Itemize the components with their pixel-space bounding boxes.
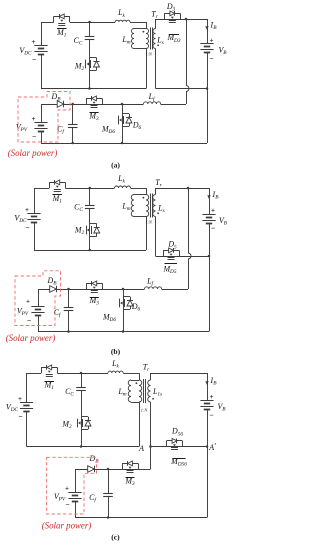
node MD6 top (b) — [122, 288, 125, 291]
mosfet MD6 with diode D6 (b) — [120, 297, 134, 310]
Tr-a secondary bottom wire — [155, 49, 157, 89]
inductor Lk (b) — [115, 186, 131, 188]
transformer Tr-c primary winding — [139, 380, 142, 402]
Tr-c primary polarity dot — [136, 382, 138, 384]
capacitor Cf (c) — [103, 494, 113, 497]
label MD6 — [101, 125, 115, 136]
wire battery VB down (c) — [207, 373, 209, 400]
label VDC plus — [32, 38, 36, 46]
label VB minus — [209, 54, 213, 63]
Tr-c secondary polarity dot — [152, 398, 154, 400]
wire VDC positive vertical — [41, 22, 43, 46]
mosfet M2 (c) — [78, 417, 92, 430]
label VB minus (b) — [211, 224, 215, 233]
Tr-b primary top stub — [146, 188, 148, 195]
wire MD6 branch — [122, 104, 124, 143]
node CC tap (c) — [80, 372, 83, 375]
Tr-b Lm top/bottom connection wires — [134, 195, 146, 217]
label Cf (c) — [89, 493, 97, 504]
Tr-c primary top stub — [139, 373, 141, 380]
svg-text:−: − — [65, 500, 69, 509]
wire primary-side ground rail — [41, 88, 146, 90]
svg-text:(c): (c) — [111, 533, 120, 542]
label A-prime (c) — [208, 441, 216, 452]
Tr-c secondary top stub — [150, 373, 152, 380]
current arrow IB — [205, 26, 208, 30]
wire top tee down to Lf (b) — [162, 188, 189, 290]
label M1 (b) — [52, 194, 63, 205]
svg-text:(Solar power): (Solar power) — [6, 333, 56, 343]
wire CC branch upper — [89, 22, 91, 37]
svg-text:1:N: 1:N — [145, 220, 153, 225]
mosfet M3 (b) — [86, 281, 102, 293]
transformer Tr-c core — [144, 379, 146, 403]
label L1s (c) — [152, 387, 162, 398]
wire Lk to transformer (c) — [123, 373, 139, 375]
label MD3 — [166, 33, 180, 44]
diode DB — [57, 101, 64, 108]
label VDC minus — [32, 55, 36, 64]
wire VDC positive vertical (b) — [34, 188, 36, 213]
label D6 — [132, 121, 142, 132]
wire CC branch upper (b) — [89, 188, 91, 206]
wire Cf lower (c) — [108, 497, 110, 518]
label DB — [51, 92, 62, 103]
wire Cf lower (b) — [68, 310, 70, 332]
label M1 — [56, 28, 67, 39]
battery VB — [200, 44, 213, 53]
wire VB negative (b) — [209, 224, 211, 257]
wire solar row horizontal — [41, 104, 122, 106]
inductor Lk — [115, 20, 130, 22]
capacitor CC (b) — [85, 206, 95, 209]
label D5 (b) — [167, 240, 177, 251]
label solar power (c) — [42, 520, 92, 530]
wire node A to D56 pair (c) — [151, 446, 208, 448]
label M3 (c) — [124, 477, 135, 488]
solar power dashed boundary (b) — [15, 271, 61, 326]
Tr-a primary polarity dot — [143, 31, 145, 33]
label M3 — [88, 112, 99, 123]
wire Cf upper — [72, 104, 74, 124]
node A (c) — [149, 445, 152, 448]
label VB — [218, 46, 227, 57]
node VB rail junction — [206, 87, 209, 90]
Tr-a primary top stub — [146, 22, 148, 29]
wire Lf to mid vertical (b) — [162, 289, 188, 291]
node A-prime (c) — [206, 445, 209, 448]
label Cf — [57, 125, 65, 136]
wire VB column to bottom (b) — [209, 256, 211, 332]
mosfet M1 (c) — [41, 365, 57, 377]
current arrow IB (c) — [205, 381, 208, 385]
mosfet M3 (c) — [122, 461, 139, 473]
wire VDC negative vertical (c) — [26, 411, 28, 447]
Tr-b primary polarity dot — [143, 197, 145, 199]
battery VPV solar source (b) — [31, 307, 44, 316]
label CC (b) — [74, 203, 83, 214]
transformer Tr-b primary winding — [146, 195, 149, 217]
label Lf — [148, 92, 156, 103]
capacitor CC (c) — [76, 388, 86, 391]
battery VDC source (b) — [27, 214, 40, 223]
wire VPV negative (c) — [75, 501, 77, 518]
inductor Lk (c) — [108, 371, 123, 373]
battery VPV solar source (c) — [68, 493, 81, 502]
inductor Lf (b) — [145, 287, 162, 289]
Tr-c Lm top/bottom connection wires — [131, 381, 139, 403]
wire solar bottom rail (c) — [75, 517, 207, 519]
transformer Tr-a core — [151, 28, 153, 50]
label M1 (c) — [44, 381, 55, 392]
wire M1 to Lk (c) — [57, 373, 108, 375]
node D5 output (b) — [208, 255, 211, 258]
wire secondary top to battery (b) — [156, 188, 210, 190]
label Lk — [117, 8, 125, 19]
caption (a) — [111, 161, 120, 170]
wire solar bottom rail (b) — [38, 331, 209, 333]
svg-text:1:N: 1:N — [141, 408, 149, 413]
label D56 (c) — [171, 427, 183, 438]
diode DB (b) — [50, 286, 57, 293]
label VDC minus (b) — [25, 223, 29, 232]
wire Lf left lead — [122, 104, 144, 106]
wire VPV negative — [41, 132, 43, 144]
label 1:N ratio (b) — [145, 220, 153, 225]
label VB minus (c) — [209, 411, 213, 420]
svg-text:+: + — [32, 38, 36, 46]
wire VPV positive (c) — [75, 469, 77, 492]
wire Lf left lead (b) — [123, 289, 145, 291]
label MD56 (c) — [170, 457, 187, 468]
label Cf (b) — [54, 308, 62, 319]
inductor Tr-b Lm magnetizing winding — [131, 195, 134, 217]
wire secondary to D5 pair (b) — [156, 256, 210, 258]
wire hop over D5 wire (b) — [188, 253, 191, 259]
label VPV (c) — [54, 492, 66, 503]
label solar power — [8, 148, 58, 158]
wire battery column to bottom rail (c) — [207, 447, 209, 518]
inductor Lf — [144, 102, 161, 104]
wire VDC negative vertical (b) — [34, 222, 36, 250]
current arrow IB (b) — [207, 195, 210, 199]
mosfet MD56 with diode D56 (c) — [167, 439, 183, 450]
label Tr (c) — [143, 363, 150, 374]
wire M1 to Lk — [70, 22, 115, 24]
label A (c) — [138, 444, 144, 453]
svg-text:(a): (a) — [111, 161, 120, 170]
transformer Tr-a primary winding — [146, 29, 149, 49]
label IB — [210, 21, 218, 32]
label Tr — [151, 10, 158, 21]
caption (c) — [111, 533, 120, 542]
wire solar bottom rail — [41, 143, 207, 145]
label VPV minus (c) — [65, 500, 69, 509]
label VPV (b) — [17, 307, 29, 318]
wire hop over rail — [186, 86, 189, 92]
label VB plus — [210, 37, 214, 45]
label VDC — [19, 46, 32, 57]
battery VPV solar source — [34, 123, 47, 132]
wire Lf to mid vertical — [161, 104, 186, 106]
label VDC (b) — [14, 214, 27, 225]
wire CC branch upper (c) — [81, 373, 83, 388]
label VPV — [16, 123, 28, 134]
svg-text:+: + — [32, 115, 36, 123]
svg-text:−: − — [209, 54, 213, 63]
mosfet M3 — [86, 96, 103, 108]
battery VDC source (c) — [20, 403, 33, 412]
node CC tap — [88, 21, 91, 24]
svg-text:+: + — [25, 206, 29, 214]
mosfet MD6 with diode D6 — [119, 114, 133, 127]
Tr-c secondary bottom wire — [150, 402, 152, 447]
wire MD6 branch (b) — [123, 289, 125, 332]
Tr-b primary bottom wire — [146, 217, 148, 251]
battery VB (b) — [202, 215, 215, 224]
wire VPV negative (b) — [38, 316, 40, 332]
svg-text:(Solar power): (Solar power) — [42, 520, 92, 530]
svg-text:−: − — [32, 132, 36, 141]
label 1:N ratio — [145, 52, 153, 57]
transformer Tr-b secondary winding — [153, 195, 156, 217]
label M2 — [74, 62, 85, 73]
label VPV minus (b) — [27, 316, 31, 325]
Tr-a secondary top stub — [155, 19, 157, 29]
label Lk (b) — [117, 174, 125, 185]
capacitor Cf — [68, 125, 78, 128]
Tr-a Lm top/bottom connection wires — [134, 29, 146, 49]
wire VPV positive — [41, 104, 43, 123]
label CC (c) — [65, 387, 74, 398]
label MD6 (b) — [102, 313, 116, 324]
wire Cf upper (b) — [68, 289, 70, 307]
label VDC minus (c) — [18, 412, 22, 421]
label Tr (b) — [155, 178, 162, 189]
node MD6 bottom — [121, 142, 124, 145]
label solar power (b) — [6, 333, 56, 343]
wire VB negative (c) — [207, 409, 209, 447]
wire CC to M2 (b) — [89, 209, 91, 251]
wire node A down to M3 (c) — [138, 447, 151, 470]
svg-text:−: − — [25, 223, 29, 232]
svg-text:A: A — [138, 444, 144, 453]
wire VB negative — [207, 53, 209, 89]
mosfet MD3 with diode D3 — [164, 11, 180, 23]
label M2 (c) — [61, 420, 72, 431]
label MD5 (b) — [162, 264, 177, 276]
node CC tap (b) — [89, 187, 92, 190]
svg-text:(Solar power): (Solar power) — [8, 148, 58, 158]
mosfet M2 (b) — [87, 224, 100, 237]
inductor Tr-c Lm magnetizing winding — [128, 380, 131, 402]
label VB (c) — [217, 402, 226, 413]
solar power dashed boundary (c) — [47, 457, 97, 514]
wire Lk to transformer (b) — [131, 188, 147, 190]
caption (b) — [111, 347, 121, 356]
label VPV plus — [32, 115, 36, 123]
node Cf tap (c) — [107, 468, 110, 471]
label 1:N ratio (c) — [141, 408, 149, 413]
node Cf bottom (b) — [67, 330, 70, 333]
node M2 source rail (b) — [89, 249, 92, 252]
label IB (b) — [212, 190, 220, 201]
label VPV plus (b) — [26, 298, 30, 306]
label Lm (c) — [117, 387, 126, 398]
label Lm — [121, 35, 130, 46]
label M2 (b) — [74, 226, 85, 237]
wire secondary top to battery (c) — [151, 373, 208, 375]
wire CC to M2 (c) — [81, 391, 83, 447]
label D3 — [166, 2, 176, 13]
solar power dashed boundary — [18, 92, 70, 143]
node Cf bottom (c) — [107, 516, 110, 519]
capacitor Cf (b) — [64, 308, 74, 311]
label VDC plus (c) — [18, 395, 22, 403]
inductor Tr-a Lm magnetizing winding — [132, 29, 135, 49]
svg-text:+: + — [210, 393, 214, 401]
Tr-b secondary polarity dot — [157, 212, 159, 214]
node MD6 top — [121, 103, 124, 106]
battery VDC source — [34, 46, 47, 55]
node Cf bottom — [71, 142, 74, 145]
label D6 (b) — [131, 302, 141, 313]
svg-text:+: + — [211, 207, 215, 215]
node D3 output — [185, 18, 188, 21]
wire M1 to Lk (b) — [65, 188, 114, 190]
wire solar row horizontal (c) — [75, 469, 138, 471]
node mid vertical tee (b) — [187, 187, 190, 190]
svg-text:(b): (b) — [111, 347, 121, 356]
svg-text:−: − — [32, 55, 36, 64]
label VDC (c) — [6, 403, 19, 414]
wire VPV positive (b) — [38, 289, 40, 307]
mosfet MD5 with diode D5 (b) — [163, 248, 180, 260]
wire secondary-side rail — [156, 88, 208, 90]
svg-text:+: + — [26, 298, 30, 306]
node Cf tap (b) — [67, 288, 70, 291]
wire VDC top to M1 — [41, 22, 54, 24]
label DB (b) — [47, 276, 58, 287]
wire VDC negative vertical — [41, 55, 43, 89]
label IB (c) — [210, 376, 218, 387]
label VB plus (c) — [210, 393, 214, 401]
svg-text:+: + — [210, 37, 214, 45]
wire Cf upper (c) — [108, 469, 110, 494]
wire Lk to transformer — [130, 22, 146, 24]
mosfet M1 — [54, 14, 70, 26]
wire primary ground rail (c) — [27, 402, 140, 447]
label Lm (b) — [121, 202, 130, 213]
label VPV minus — [32, 132, 36, 141]
svg-text:−: − — [27, 316, 31, 325]
node MD6 bottom (b) — [122, 330, 125, 333]
label DB (c) — [89, 454, 100, 465]
wire primary ground rail (b) — [34, 250, 146, 252]
svg-text:1:N: 1:N — [145, 52, 153, 57]
Tr-a secondary polarity dot — [157, 44, 159, 46]
Tr-b secondary bottom wire — [155, 217, 157, 257]
wire to battery VB — [207, 19, 209, 44]
wire D3 output down to Lf — [161, 19, 187, 105]
mosfet M1 (b) — [49, 180, 65, 192]
label Lf (b) — [146, 277, 154, 288]
transformer Tr-a secondary winding — [153, 29, 156, 49]
node Cf tap — [71, 103, 74, 106]
label Lk (c) — [111, 359, 119, 370]
svg-text:−: − — [211, 224, 215, 233]
wire VDC top to M1 (c) — [27, 373, 42, 375]
svg-text:−: − — [18, 412, 22, 421]
wire VB column to bottom rail — [207, 89, 209, 144]
mosfet M2 — [86, 58, 100, 71]
label M3 (b) — [89, 296, 100, 307]
svg-text:+: + — [65, 484, 69, 492]
label CC — [74, 36, 83, 47]
wire Cf lower — [72, 127, 74, 143]
Tr-a primary bottom wire — [146, 49, 148, 89]
transformer Tr-c secondary winding — [148, 380, 151, 402]
wire battery VB down (b) — [209, 188, 211, 215]
diode DB (c) — [88, 466, 95, 473]
label VDC plus (b) — [25, 206, 29, 214]
label Ls — [156, 36, 163, 47]
transformer Tr-b core — [151, 194, 153, 218]
label VB (b) — [219, 216, 228, 227]
Tr-b secondary top stub — [155, 188, 157, 195]
label VPV plus (c) — [65, 484, 69, 492]
wire secondary to D3 pair — [156, 19, 208, 21]
label VB plus (b) — [211, 207, 215, 215]
wire VDC top to M1 (b) — [34, 188, 49, 190]
label Ls (b) — [157, 204, 164, 215]
capacitor CC — [85, 37, 95, 40]
node M2 source rail — [88, 87, 91, 90]
battery VB (c) — [200, 401, 213, 410]
wire VDC positive vertical (c) — [26, 373, 28, 402]
svg-text:−: − — [209, 411, 213, 420]
wire CC to M2 — [89, 40, 91, 89]
wire solar row horizontal (b) — [38, 289, 123, 291]
node M2 source rail (c) — [80, 445, 83, 448]
svg-text:+: + — [18, 395, 22, 403]
